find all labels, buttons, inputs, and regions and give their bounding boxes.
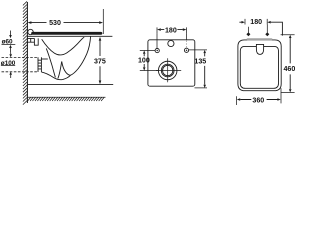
dashed outlet pipe [2,57,39,71]
coupling top stub [41,58,47,60]
dimension 180 (top view) [239,18,282,35]
bowl outer front [71,36,91,75]
trap curve right branch [58,62,62,79]
coupling [38,57,41,72]
wall hatching [23,1,27,104]
ceramic top line [27,35,112,37]
svg-text:460: 460 [283,65,295,73]
dimension 180 (front) [157,27,187,49]
flush plate [256,44,263,54]
flush outlet circles [158,61,177,80]
dimension o60 [2,31,16,53]
bowl bottom line [41,72,70,80]
dimension 375 [94,37,106,84]
crosshair [156,58,181,82]
trap curve left branch [46,48,55,77]
water inlet circle [168,40,174,46]
dimension 530 [28,9,104,34]
svg-text:360: 360 [252,96,264,104]
svg-text:180: 180 [250,18,262,26]
hinge bar [248,38,272,40]
floor line [27,84,113,86]
bowl hump curve [62,62,71,76]
hinge circle [28,29,33,34]
hinge stems [248,25,267,33]
ground hatching [28,97,105,101]
seat outer outline (top view) [238,40,281,91]
inlet pipe [27,38,34,42]
bolt hole left [155,49,159,53]
bolt hole right [184,48,188,52]
wall [26,2,28,103]
svg-text:100: 100 [138,57,150,65]
dimension 135 (front) [189,50,207,88]
dimension o100 [1,53,16,78]
svg-text:180: 180 [165,27,177,35]
svg-text:375: 375 [94,58,106,66]
seat inner outline [240,46,278,88]
ground line [28,96,106,98]
svg-text:530: 530 [49,19,61,27]
frame outline (front view) [148,40,195,86]
svg-text:135: 135 [194,58,206,66]
hinge diamond right [265,32,269,36]
inlet bracket [34,38,38,45]
hinge diamond left [246,32,250,36]
seat bar [33,32,101,35]
bowl inner curve [42,37,84,55]
dimension 100 (front) [138,50,158,70]
dimension 360 [237,88,281,105]
dimension 460 [281,35,296,93]
